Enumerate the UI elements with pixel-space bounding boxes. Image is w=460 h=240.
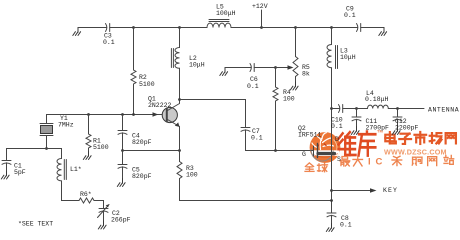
- wire C7 to gate rail: [245, 133, 247, 151]
- watermark char quan: [305, 163, 314, 172]
- wire R2 column upper: [133, 28, 135, 71]
- wire C5 column: [122, 151, 124, 165]
- node (base / C4): [121, 113, 124, 116]
- node (emitter / tap): [178, 149, 181, 152]
- inductor L1: [57, 159, 62, 181]
- transistor Q1 2N2222: [162, 107, 177, 122]
- svg-text:R6*: R6*: [80, 191, 92, 198]
- wire node to L4: [357, 108, 368, 110]
- wire L3 to drain node (column through Q2): [331, 68, 333, 213]
- watermark char zui: [340, 157, 350, 166]
- node (base / crystal top): [87, 113, 90, 116]
- capacitor C7: [241, 127, 250, 129]
- wire gate rail: [246, 150, 312, 152]
- watermark char zi: [399, 134, 411, 144]
- node (rail / L3): [330, 26, 333, 29]
- capacitor C9: [357, 24, 358, 32]
- node (KEY tap): [330, 189, 333, 192]
- resistor R2: [131, 70, 136, 84]
- wire L3 column upper: [331, 28, 333, 45]
- resistor R3: [179, 151, 181, 162]
- ground (below C2): [98, 221, 106, 229]
- svg-text:5pF: 5pF: [14, 169, 26, 176]
- ground (top-right, after C9): [379, 28, 387, 36]
- ground (below R5): [290, 82, 298, 90]
- wire C10 to C11 node: [344, 108, 357, 110]
- wire R6 to C2: [94, 201, 104, 209]
- watermark char da: [353, 157, 362, 166]
- wire rail to L2 tap: [134, 27, 180, 29]
- svg-text:100: 100: [283, 96, 295, 103]
- wire top rail left: [78, 27, 107, 29]
- watermark char gou: [412, 157, 422, 165]
- capacitor C1: [2, 160, 11, 162]
- inductor L3: [327, 45, 332, 68]
- wire L2 column upper: [179, 28, 181, 48]
- wire C4 to tap: [122, 136, 124, 151]
- capacitor C10: [339, 105, 340, 113]
- capacitor C4: [118, 130, 127, 132]
- wire L5 to +12V node: [231, 27, 262, 29]
- node (C6 / R4 / wiper): [274, 66, 277, 69]
- wire L2 to Q1 collector: [179, 68, 181, 99]
- node (collector): [178, 98, 181, 101]
- wire node to R5 wiper arrow: [276, 67, 289, 69]
- node (+12V tap): [260, 26, 263, 29]
- svg-text:S: S: [337, 156, 341, 163]
- svg-text:100: 100: [186, 172, 198, 179]
- wire L1 to R6: [62, 181, 80, 201]
- watermark char wang: [446, 133, 456, 143]
- watermark logo disc: [310, 132, 341, 163]
- svg-text:C: C: [376, 157, 383, 168]
- svg-text:100μH: 100μH: [216, 10, 236, 17]
- svg-text:L1*: L1*: [70, 166, 82, 173]
- wire tap to emitter: [123, 150, 180, 152]
- capacitor C5: [118, 164, 127, 166]
- watermark char cai: [392, 156, 402, 165]
- wire C3 to R2 node: [111, 27, 134, 29]
- transistor Q2 IRF511 (MOSFET): [311, 149, 333, 161]
- resistor R6: [79, 198, 94, 203]
- ground (below C1): [1, 171, 9, 179]
- node (C4/C5 tap): [121, 149, 124, 152]
- node (rail / L2): [178, 26, 181, 29]
- svg-text:KEY: KEY: [383, 187, 398, 194]
- node (rail / R5): [294, 26, 297, 29]
- ground (top-left, at C3 input): [73, 28, 81, 36]
- svg-text:I: I: [368, 157, 371, 168]
- capacitor C11: [356, 109, 358, 117]
- ground (below C5): [117, 179, 125, 187]
- inductor L2: [175, 48, 180, 69]
- node (drain / C10 line): [330, 107, 333, 110]
- inductor L4: [368, 105, 389, 108]
- capacitor C6: [250, 64, 251, 72]
- svg-text:8k: 8k: [302, 71, 310, 78]
- wire drain node to C10: [332, 108, 340, 110]
- svg-text:7MHz: 7MHz: [58, 122, 74, 129]
- wire +12V stub: [261, 10, 263, 28]
- wire node to C1: [7, 149, 47, 161]
- watermark char chang: [430, 133, 442, 143]
- svg-text:0.1: 0.1: [251, 135, 263, 142]
- svg-text:WWW.DZSC.COM: WWW.DZSC.COM: [384, 148, 447, 157]
- resistor R5 (pot): [295, 28, 297, 57]
- svg-text:G: G: [302, 151, 306, 158]
- wire R2 to base node: [133, 84, 135, 115]
- svg-text:R2: R2: [139, 74, 147, 81]
- wire C4 column: [122, 115, 124, 131]
- svg-text:10μH: 10μH: [340, 54, 356, 61]
- svg-text:820pF: 820pF: [132, 173, 152, 180]
- node (C11 tap): [355, 107, 358, 110]
- node (base / R2): [132, 113, 135, 116]
- watermark char ku(big): [359, 132, 376, 156]
- crystal Y1: [46, 115, 48, 124]
- wire base rail: [47, 114, 167, 116]
- capacitor C2 (trimmer): [99, 208, 108, 210]
- resistor R4: [275, 68, 277, 88]
- wire rail to L5: [180, 27, 208, 29]
- wire L4 to C12 node: [388, 108, 397, 110]
- ground (below C11): [351, 127, 359, 135]
- wire rail to R5 tap: [262, 27, 296, 29]
- ground (C6 left): [220, 68, 228, 76]
- watermark char zhan: [444, 155, 454, 164]
- wire bottom rail (R3 to Q2 source): [180, 200, 332, 202]
- svg-text:10μH: 10μH: [189, 62, 205, 69]
- node (gate / R4): [274, 149, 277, 152]
- wire KEY: [332, 190, 372, 192]
- watermark char shi: [415, 132, 427, 144]
- capacitor C12: [397, 109, 399, 117]
- inductor L5: [207, 23, 231, 27]
- svg-text:0.1: 0.1: [344, 12, 356, 19]
- wire rail to L3 tap: [296, 27, 332, 29]
- watermark char wang2: [428, 157, 437, 166]
- watermark char dian: [385, 132, 396, 143]
- svg-text:5100: 5100: [139, 81, 155, 88]
- wire node to L1: [47, 149, 62, 159]
- wire rail to C9: [332, 27, 358, 29]
- svg-text:2N2222: 2N2222: [148, 102, 172, 109]
- svg-text:0.18μH: 0.18μH: [365, 96, 389, 103]
- wire C6 to R4 node: [255, 67, 276, 69]
- ground (below C12): [392, 127, 400, 135]
- watermark char qiu(ball): [318, 162, 328, 171]
- svg-text:0.1: 0.1: [340, 222, 352, 229]
- svg-text:5100: 5100: [93, 144, 109, 151]
- svg-text:0.1: 0.1: [103, 39, 115, 46]
- svg-text:2700pF: 2700pF: [366, 125, 390, 132]
- resistor R1: [88, 115, 90, 135]
- node (crystal bottom / C1 / L1): [45, 147, 48, 150]
- svg-text:+12V: +12V: [252, 3, 268, 10]
- node (rail / R2): [132, 26, 135, 29]
- capacitor C3: [106, 24, 107, 32]
- svg-text:*SEE TEXT: *SEE TEXT: [18, 221, 53, 228]
- svg-text:D: D: [335, 136, 339, 143]
- svg-text:2200pF: 2200pF: [395, 125, 419, 132]
- wire collector to C7: [180, 100, 246, 128]
- arrow KEY: [370, 188, 377, 192]
- wire C9 to ground: [362, 27, 385, 29]
- svg-text:266pF: 266pF: [111, 217, 131, 224]
- wire ground to C6: [225, 67, 251, 69]
- node (C12 tap): [396, 107, 399, 110]
- wiper arrow of R5: [288, 65, 294, 69]
- ground (below R1): [83, 152, 91, 160]
- ground (below C8): [326, 224, 334, 232]
- svg-text:0.1: 0.1: [331, 123, 343, 130]
- svg-text:820pF: 820pF: [132, 139, 152, 146]
- svg-text:ANTENNA: ANTENNA: [428, 107, 459, 114]
- watermark char wei(big): [339, 132, 356, 155]
- wire node to antenna: [398, 108, 425, 110]
- capacitor C8: [327, 212, 336, 214]
- node (bottom rail / source column): [330, 199, 333, 202]
- svg-text:IRF511: IRF511: [298, 132, 322, 139]
- svg-text:0.1: 0.1: [247, 83, 259, 90]
- svg-text:C6: C6: [250, 76, 258, 83]
